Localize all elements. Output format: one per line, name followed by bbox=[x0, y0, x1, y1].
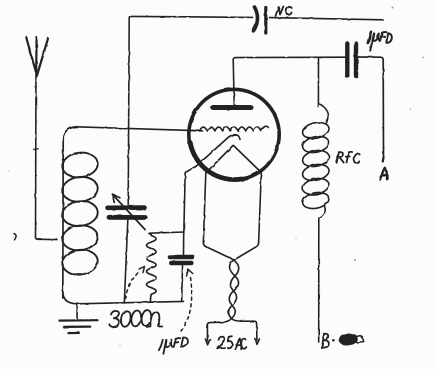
label NC bbox=[276, 6, 292, 16]
label 2.5AC bbox=[217, 336, 246, 349]
filament V bbox=[203, 146, 261, 244]
wire plate lead bbox=[233, 60, 234, 106]
plate (anode) bar bbox=[213, 105, 251, 110]
label RFC bbox=[337, 152, 360, 163]
capacitor C3 coupling 1uFD bbox=[347, 44, 356, 77]
label B+ smudge blob bbox=[339, 334, 357, 345]
label A bbox=[380, 168, 387, 180]
label 1uFD bottom bbox=[159, 338, 188, 354]
wire grid entry bbox=[186, 129, 201, 132]
wire A terminal tip tick bbox=[383, 157, 384, 162]
triode V1 envelope bbox=[189, 89, 279, 179]
resistor R1 3000 ohm bbox=[147, 233, 157, 302]
wire coupling cap to A terminal bbox=[359, 57, 384, 160]
label 3000 ohm bbox=[109, 309, 162, 327]
wire cathode drop to grid-leak cap bbox=[183, 232, 185, 255]
dashed arrow to resistor bbox=[125, 267, 145, 300]
antenna bbox=[26, 37, 48, 238]
cathode lead (diagonal with hook) bbox=[184, 135, 240, 233]
wire cathode connector (to resistor top) bbox=[150, 232, 184, 233]
speck mark bbox=[14, 234, 16, 240]
wire bottom bus bbox=[77, 301, 184, 303]
wire plate to coupling cap bbox=[233, 57, 345, 59]
wire RFC drop bbox=[317, 57, 319, 107]
filament supply arrows 2.5AC bbox=[205, 319, 259, 345]
label B+ bbox=[322, 334, 335, 348]
wire top bus right segment bbox=[270, 18, 384, 20]
filament twisted pair bbox=[203, 243, 258, 319]
capacitor C2 grid leak 1uFD bbox=[170, 257, 193, 301]
grid (wavy) bbox=[200, 126, 269, 131]
wire top bus left segment bbox=[129, 16, 252, 17]
RFC choke bbox=[301, 104, 330, 218]
variable capacitor C1 bbox=[108, 194, 146, 229]
wire left vertical (top bus drop) bbox=[128, 18, 129, 205]
ground bbox=[60, 304, 98, 333]
triode V1 envelope heavy lower arc bbox=[190, 143, 242, 180]
dashed arrow to capacitor bbox=[181, 270, 193, 332]
wire grid wire (coil top to tube grid) bbox=[76, 127, 202, 131]
wire RFC to B+ bbox=[318, 219, 320, 342]
coil L1 tuning coil bbox=[61, 127, 99, 304]
wire antenna lead bbox=[36, 238, 58, 240]
label 1uFD top bbox=[368, 32, 392, 51]
capacitor NC bbox=[254, 7, 266, 33]
wire variable cap to bottom bus bbox=[124, 220, 128, 303]
